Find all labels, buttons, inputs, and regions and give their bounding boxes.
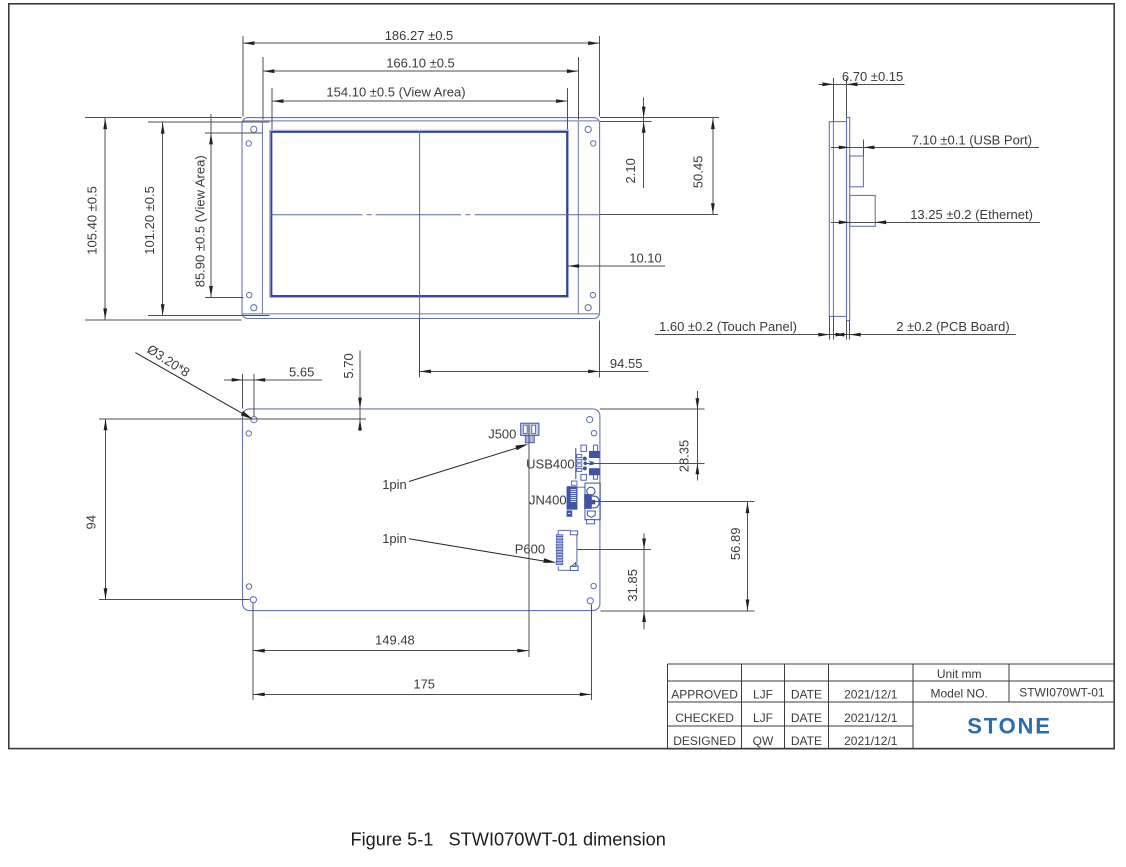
dimension 149.48 extension lines [252,603,254,658]
dimension 149.48 line and arrows [253,650,529,652]
dimension 154.10 extension lines [271,88,273,130]
svg-text:Unit mm: Unit mm [937,667,982,681]
front view mounting hole 8 [585,305,591,311]
dimension 7.10 USB extension tick [862,140,864,157]
side view PCB board layer [847,117,850,320]
svg-text:2021/12/1: 2021/12/1 [844,734,898,748]
svg-text:2021/12/1: 2021/12/1 [844,711,898,725]
front view inner opening left edge [261,121,263,314]
front view vertical centerline [419,131,421,319]
svg-text:STONE: STONE [967,714,1051,739]
hole center reference line [99,418,366,420]
dimension 186.27 extension lines [242,36,244,117]
dimension 31.85 line and arrows [643,534,645,630]
dimension 94.55 extension lines [418,319,420,378]
svg-text:DESIGNED: DESIGNED [673,734,736,748]
svg-text:P600: P600 [515,541,545,556]
svg-text:USB400: USB400 [526,457,574,472]
hole diameter callout leader [135,353,245,416]
back view PCB outline [243,409,600,611]
svg-text:6.70 ±0.15: 6.70 ±0.15 [842,69,903,84]
svg-text:166.10 ±0.5: 166.10 ±0.5 [386,56,455,71]
svg-text:10.10: 10.10 [629,250,662,265]
front view mounting hole 3 [585,126,591,132]
svg-text:APPROVED: APPROVED [671,687,738,701]
front view bezel inner top line [242,120,599,122]
dimension 28.35 line and arrows [696,391,698,480]
side view USB connector protrusion [850,156,864,187]
dimension 1.60 touch panel line and arrows [655,334,1016,336]
svg-text:STWI070WT-01: STWI070WT-01 [1019,686,1105,700]
1pin leader upper [409,447,519,481]
svg-text:DATE: DATE [791,687,822,701]
back view mounting hole 2 [246,431,251,436]
dimension 13.25 line and arrows [831,221,1040,223]
1pin leader lower [409,539,545,562]
svg-text:DATE: DATE [791,711,822,725]
dimension 105.40 extension lines [85,117,242,119]
front view mounting hole 6 [251,305,257,311]
front view horizontal centerline [271,214,363,216]
connector P600 body [558,529,570,531]
dimension 5.70 line and arrows [359,350,361,431]
dimension 5.65 line and arrows [224,379,322,381]
svg-text:186.27 ±0.5: 186.27 ±0.5 [385,28,454,43]
front view mounting hole 1 [251,126,257,132]
dimension 85.90 line and arrows [210,114,212,298]
svg-text:13.25 ±0.2 (Ethernet): 13.25 ±0.2 (Ethernet) [910,207,1033,222]
dimension 2.10 extension line [600,121,652,123]
view area light outline [270,130,569,297]
svg-text:CHECKED: CHECKED [675,711,734,725]
dimension 94 bottom reference line [99,599,249,601]
dimension 50.45 extension lines [600,117,719,119]
connector USB400 body [575,448,577,479]
back view mounting hole 4 [591,431,596,436]
dimension 31.85 reference line [577,549,651,551]
side view touch panel inner line [832,122,834,317]
svg-text:7.10 ±0.1 (USB Port): 7.10 ±0.1 (USB Port) [912,132,1033,147]
back view mounting hole 5 [246,584,251,589]
front view inner opening right edge [577,121,579,314]
svg-text:56.89: 56.89 [728,528,743,561]
dimension 6.70 line and arrows [818,83,904,85]
svg-text:2021/12/1: 2021/12/1 [844,687,898,701]
svg-text:2 ±0.2 (PCB Board): 2 ±0.2 (PCB Board) [896,319,1009,334]
dimension 94 line and arrows [105,419,107,600]
side view Ethernet connector protrusion [850,195,876,226]
dimension 2.10 line and arrows [643,97,645,188]
svg-text:QW: QW [753,734,774,748]
svg-text:LJF: LJF [753,711,773,725]
svg-text:149.48: 149.48 [375,633,415,648]
title block outline [668,663,1115,665]
front view mounting hole 2 [246,141,251,146]
svg-text:85.90 ±0.5 (View Area): 85.90 ±0.5 (View Area) [193,155,208,287]
svg-text:JN400: JN400 [529,493,567,508]
svg-text:175: 175 [413,676,435,691]
svg-text:1pin: 1pin [382,477,407,492]
svg-text:101.20 ±0.5: 101.20 ±0.5 [142,186,157,255]
dimension 85.90 extension lines [205,132,262,134]
svg-text:31.85: 31.85 [625,569,640,602]
svg-text:154.10 ±0.5 (View Area): 154.10 ±0.5 (View Area) [326,85,465,100]
back view mounting hole 8 [587,598,593,604]
side view panel body (touch panel + LCD) [829,122,846,317]
svg-text:94.55: 94.55 [610,356,643,371]
dimension 7.10 line and arrows [831,146,1039,148]
svg-text:105.40 ±0.5: 105.40 ±0.5 [84,186,99,255]
svg-text:94: 94 [84,515,99,529]
dimension 56.89 line and arrows [747,502,749,611]
front view mounting hole 7 [590,292,595,297]
svg-text:2.10: 2.10 [623,158,638,183]
view area dark border [271,132,567,296]
svg-text:DATE: DATE [791,734,822,748]
front view mounting hole 5 [247,292,252,297]
svg-text:1.60 ±0.2 (Touch Panel): 1.60 ±0.2 (Touch Panel) [659,319,797,334]
connector JN400 body [567,487,577,510]
dimension 94.55 line and arrows [419,370,648,372]
svg-text:28.35: 28.35 [677,440,692,473]
svg-text:Figure 5-1 STWI070WT-01 dime: Figure 5-1 STWI070WT-01 dimension [351,830,666,850]
back view mounting hole 1 [251,417,257,423]
dimension 166.10 line and arrows [263,70,579,72]
dimension 175 extension line right [590,605,592,701]
svg-text:J500: J500 [488,426,516,441]
front view bezel outer outline [242,118,600,319]
dimension 6.70 extension lines [832,78,834,122]
dimension 101.20 extension lines [148,121,270,123]
dimension 175 line and arrows [253,693,591,695]
connector J500 body [521,423,539,435]
dimension 5.65 extension lines [242,374,244,408]
svg-text:LJF: LJF [753,687,773,701]
side view bottom extension lines [828,316,830,339]
svg-text:1pin: 1pin [382,531,407,546]
dimension 166.10 extension lines [262,57,264,120]
dimension 10.10 leader line and arrow [568,265,665,267]
back view mounting hole 6 [250,597,256,603]
dimension 50.45 line and arrows [712,118,714,215]
dimension 186.27 line and arrows [243,42,600,44]
dimension 56.89 reference lines [592,501,755,503]
dimension 2 PCB line arrows [836,333,847,337]
front view bezel inner bottom line [242,313,599,315]
dimension 105.40 line and arrows [104,118,106,320]
svg-text:Model NO.: Model NO. [931,687,988,701]
svg-text:5.65: 5.65 [289,364,314,379]
dimension 28.35 reference lines [600,408,704,410]
back view mounting hole 3 [587,417,593,423]
back view mounting hole 7 [591,583,596,588]
front view mounting hole 4 [591,141,596,146]
svg-text:5.70: 5.70 [341,353,356,378]
dimension 154.10 line and arrows [272,100,568,102]
svg-text:50.45: 50.45 [691,156,706,189]
dimension 101.20 line and arrows [162,122,164,316]
